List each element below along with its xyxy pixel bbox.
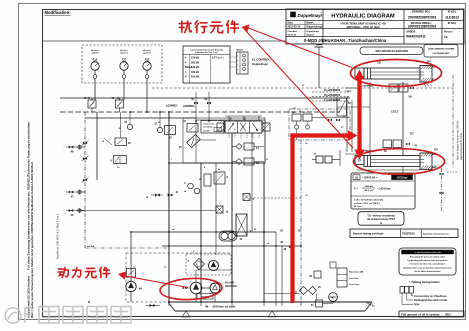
svg-text:MULTI: MULTI [237,50,244,52]
svg-text:a/25/MW25: a/25/MW25 [183,106,195,108]
svg-text:Date:: Date: [288,22,294,25]
svg-text:ID NO.): ID NO.) [448,11,457,14]
svg-text:ORDER:: ORDER: [406,30,416,33]
svg-text:PD/STD/20: PD/STD/20 [403,233,416,236]
svg-text:343 kN: 343 kN [191,66,199,69]
svg-text:44: 44 [139,287,143,291]
svg-text:type: type [414,302,420,306]
svg-text:F =: F = [354,187,358,191]
svg-text:C) a/25/MW25: C) a/25/MW25 [324,99,341,102]
svg-text:Checked:: Checked: [288,31,298,33]
svg-text:0-MGD JIUHUASHAN , Tianzhushan: 0-MGD JIUHUASHAN , Tianzhushan/China [304,38,387,43]
svg-text:62: 62 [410,132,414,136]
svg-text:94,7mm: 94,7mm [354,205,362,208]
svg-text:dns.0x4: dns.0x4 [87,245,95,248]
svg-text:Load-monitoring system (item B: Load-monitoring system (item B) [190,48,222,51]
svg-text:Expansion (M): Expansion (M) [349,272,364,274]
svg-text:Schutzvermerk ISO 16016 beacht: Schutzvermerk ISO 16016 beachten [28,275,31,318]
svg-text:Deposit testing certificate: Deposit testing certificate [353,233,384,236]
svg-text:* = start of pressure side val: * = start of pressure side valve [413,251,442,254]
svg-text:by opening performance valve a: by opening performance valve are open th… [407,259,448,262]
svg-text:1 kN = 10 T-DN 6A = 147,5 (%): 1 kN = 10 T-DN 6A = 147,5 (%) [354,198,383,201]
svg-text:2000085288052003: 2000085288052003 [408,15,437,19]
svg-text:154 kN: 154 kN [191,57,199,60]
svg-text:indication for 5 or 1 col.: indication for 5 or 1 col. [195,51,219,54]
svg-text:x: x [237,69,238,71]
svg-text:rest has to be taken into cons: rest has to be taken into consideration. [409,263,446,266]
svg-text:Non-acting the pressure contro: Non-acting the pressure control valve, [410,256,446,259]
svg-text:310 kN: 310 kN [191,76,199,79]
svg-text:= 55P-D-6A =: = 55P-D-6A = [362,177,378,180]
svg-text:Full amount of oil in system:: Full amount of oil in system: [401,313,440,317]
svg-text:B) a/25/MW25: B) a/25/MW25 [324,94,341,97]
svg-text:T.S - without considering: T.S - without considering [367,215,395,218]
svg-text:329 kN: 329 kN [191,71,199,74]
svg-text:126,1 cm²: 126,1 cm² [364,189,374,192]
svg-text:400V/50Hz - 250l oil tank: 400V/50Hz - 250l oil tank [346,25,380,29]
svg-text:36: 36 [205,305,209,309]
svg-text:x: x [237,56,238,58]
svg-text:C1/C2: C1/C2 [345,91,352,93]
svg-text:Name:: Name: [307,23,314,25]
svg-text:m: m [380,223,382,225]
svg-text:adjust pressure 55,0 bar: adjust pressure 55,0 bar [460,133,463,160]
svg-text:1800 kN: 1800 kN [364,186,373,188]
svg-text:hydraulic tensioning unit: hydraulic tensioning unit [423,233,449,236]
svg-text:60: 60 [434,148,438,152]
svg-text:a/25/MW25: a/25/MW25 [362,86,374,88]
svg-text:set pressure: set pressure [203,123,214,126]
svg-text:Weitergabe sowie Verwertung de: Weitergabe sowie Verwertung des Inhalts … [30,162,34,318]
svg-text:cylinder: cylinder [91,52,99,54]
svg-text:ID NO.): ID NO.) [448,22,457,25]
svg-text:surface = 126,1 cm² (DP-6°): surface = 126,1 cm² (DP-6°) [354,202,380,205]
svg-text:x: x [237,60,238,62]
svg-text:2000033188052003: 2000033188052003 [408,25,437,29]
svg-text:5,77 t: 5,77 t [218,57,224,60]
svg-text:WAA0002411: WAA0002411 [406,35,426,39]
svg-text:59: 59 [409,95,413,99]
svg-text:max 80: max 80 [203,131,209,133]
svg-text:11116913: 11116913 [445,15,459,19]
svg-text:147,5 bar: 147,5 bar [397,177,408,180]
svg-text:Modification:: Modification: [45,10,71,15]
svg-text:363 kN: 363 kN [191,61,199,64]
svg-text:2011-03-10: 2011-03-10 [288,26,301,29]
svg-text:4212-295/100-2A-5000-2266: 4212-295/100-2A-5000-2266 [375,49,408,53]
svg-text:a/15/MW15: a/15/MW15 [166,106,178,108]
svg-text:system 1: system 1 [120,51,128,54]
svg-text:05-03-10: 05-03-10 [288,34,298,36]
svg-text:Level max.: Level max. [349,284,360,286]
svg-text:Doppelmayr: Doppelmayr [252,62,269,66]
svg-text:can be taken characteristics!: can be taken characteristics! [414,270,441,273]
svg-text:Starting valve = start of open: Starting valve = start of opening = dyna… [403,266,452,269]
svg-text:1x: 1x [444,35,448,39]
svg-text:Pieces:: Pieces: [444,30,453,33]
svg-text:LAND-SENDING SYSTEM: LAND-SENDING SYSTEM [428,48,455,51]
svg-text:Distinguishing mark of unit: Distinguishing mark of unit [414,298,447,302]
svg-text:* Tubing designation:: * Tubing designation: [409,280,440,284]
svg-text:A) a/23/MW23: A) a/23/MW23 [324,89,341,92]
svg-text:Doppelmayr: Doppelmayr [298,13,323,18]
svg-text:Erstellt mit CAD HYD 4.1 / Bla: Erstellt mit CAD HYD 4.1 / Blatt 1 von 1 [56,213,60,259]
svg-text:Rappelsberger: Rappelsberger [307,26,324,29]
svg-text:2-DODAN/3-SDF: 2-DODAN/3-SDF [433,52,451,55]
svg-text:HYDRAULIC DIAGRAM: HYDRAULIC DIAGRAM [331,14,395,20]
svg-text:the inclined runway 760,8: the inclined runway 760,8 [367,218,396,221]
svg-text:*: * [64,211,65,213]
svg-text:*: * [64,147,65,149]
svg-text:*: * [64,192,65,194]
svg-text:min 30 bar: min 30 bar [203,127,213,129]
svg-text:x: x [237,65,238,67]
svg-text:= 142,8 bar: = 142,8 bar [377,187,390,191]
svg-text:Wolfurt: Wolfurt [307,33,315,36]
svg-text:400V/50Hz: 400V/50Hz [225,285,238,288]
svg-text:Consecutive no. Pipe/Hose: Consecutive no. Pipe/Hose [414,294,447,298]
svg-text:DRAWING NO.): DRAWING NO.) [412,11,430,14]
svg-text:Doppelmayr: Doppelmayr [307,31,320,33]
svg-text:405 l: 405 l [445,313,452,317]
svg-text:Level min.: Level min. [349,278,360,280]
svg-text:M: M [331,296,333,300]
svg-text:C2/C3: C2/C3 [391,111,398,114]
svg-text:system 2: system 2 [143,51,151,54]
